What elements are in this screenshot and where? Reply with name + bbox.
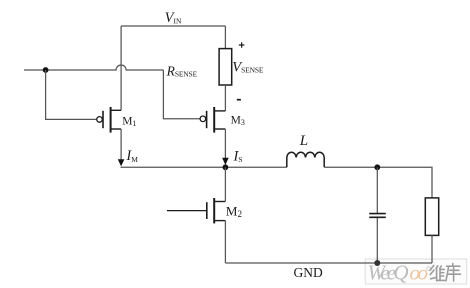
resistor RSENSE: [219, 49, 232, 85]
wire mid node: [121, 166, 287, 168]
svg-text:L: L: [299, 133, 308, 149]
wire RSENSE to M3 drain: [224, 85, 226, 111]
watermark text WeeQoo: [368, 261, 429, 285]
arrow IS: [222, 158, 229, 165]
svg-text:M3: M3: [231, 115, 245, 127]
transistor M3: [200, 107, 225, 133]
label plus: [239, 42, 245, 47]
wire M1 gate feed: [46, 70, 97, 119]
wire M1 drain to VIN rail: [120, 26, 122, 110]
wire inductor to load: [324, 167, 432, 198]
wire M3 gate feed: [163, 70, 200, 119]
svg-text:M2: M2: [226, 203, 242, 219]
transistor M2: [167, 198, 225, 223]
svg-text:VIN: VIN: [165, 10, 182, 26]
svg-text:M1: M1: [122, 116, 136, 128]
wire M3 source: [224, 129, 226, 160]
inductor L: [287, 152, 324, 167]
node IS junction: [223, 164, 229, 170]
node input junction: [43, 67, 49, 73]
transistor M1: [97, 107, 121, 133]
watermark text weiku: [430, 264, 460, 281]
wire ground rail: [225, 262, 432, 264]
wire M2 drain: [224, 167, 226, 201]
wire VIN rail: [121, 25, 225, 27]
svg-text:GND: GND: [294, 265, 323, 280]
svg-text:WeeQ: WeeQ: [368, 261, 409, 285]
watermark box: [365, 259, 467, 284]
wire input net: [24, 65, 163, 70]
label minus: [237, 99, 241, 101]
wire load to ground: [431, 235, 433, 263]
wire M1 source: [120, 129, 122, 160]
wire output to capacitor: [376, 167, 378, 213]
svg-text:RSENSE: RSENSE: [166, 63, 198, 78]
wire rail to RSENSE: [224, 26, 226, 49]
wire M2 source to ground: [224, 221, 226, 263]
resistor load: [425, 198, 438, 236]
capacitor C: [369, 214, 386, 218]
svg-text:VSENSE: VSENSE: [232, 60, 264, 76]
node output junction: [374, 164, 380, 170]
arrow IM: [118, 159, 125, 166]
svg-text:IS: IS: [233, 148, 243, 164]
watermark registered mark: [427, 267, 431, 271]
wire capacitor to ground: [376, 218, 378, 263]
svg-text:oo: oo: [410, 261, 429, 285]
svg-text:IM: IM: [125, 148, 138, 164]
node ground junction: [374, 260, 380, 266]
